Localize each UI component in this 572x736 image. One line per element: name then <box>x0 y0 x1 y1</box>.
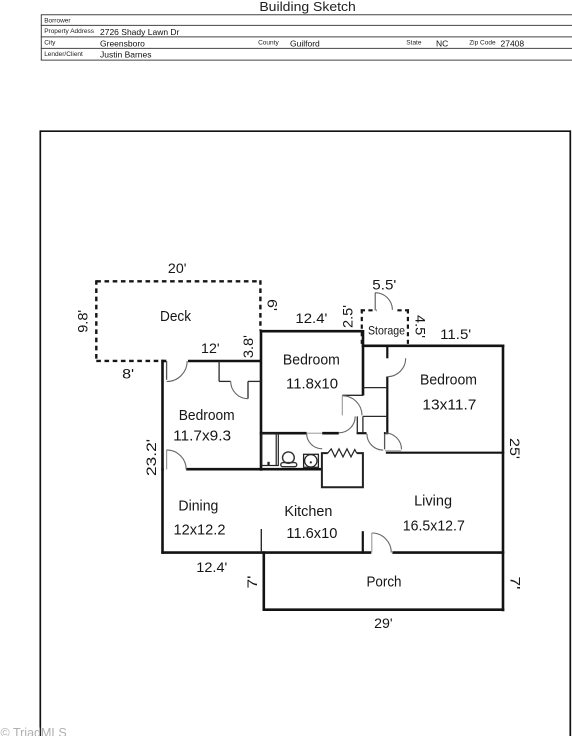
svg-text:Kitchen: Kitchen <box>284 503 332 520</box>
arc: dining door <box>167 450 187 470</box>
wall: bath/left-bedroom bottom <box>161 468 163 471</box>
arc: left bedroom closet door <box>231 381 248 398</box>
sketch frame top border <box>40 130 570 132</box>
deck dashed edge top <box>96 280 260 282</box>
bedroom13 door leaf <box>384 435 386 450</box>
wall: left house wall <box>161 360 164 554</box>
threshold bedroom13 door <box>385 450 401 452</box>
svg-text:County: County <box>258 40 279 47</box>
storage dashed edge left <box>361 309 363 345</box>
fixture: toilet <box>281 452 297 467</box>
svg-text:© TriadMLS: © TriadMLS <box>1 726 67 736</box>
wall: hall bottom piece <box>357 432 367 434</box>
arc: hall door to kitchen <box>367 434 383 450</box>
svg-text:11.6x10: 11.6x10 <box>286 525 337 542</box>
svg-text:4.5': 4.5' <box>413 315 429 338</box>
hall shelf y416 <box>363 415 387 417</box>
wall: storage bottom / right bedroom top <box>362 344 505 347</box>
svg-text:Property Address: Property Address <box>44 28 95 35</box>
wall: tick between hall doors <box>384 432 389 434</box>
threshold bath door <box>307 432 323 434</box>
svg-text:20': 20' <box>168 260 187 276</box>
fixture: shower stall <box>262 433 279 465</box>
dining-kitchen divider <box>260 529 262 553</box>
svg-text:Guilford: Guilford <box>290 38 320 48</box>
dining door leaf <box>166 450 168 469</box>
deck dashed edge bottom <box>96 360 162 362</box>
room + dimension labels <box>75 260 524 631</box>
svg-text:Bedroom: Bedroom <box>420 372 477 389</box>
door thresholds (light) <box>307 433 402 451</box>
storage dashed edge right <box>407 309 409 345</box>
svg-text:11.8x10: 11.8x10 <box>286 376 338 393</box>
svg-text:29': 29' <box>374 615 393 631</box>
sketch frame right border <box>569 130 571 736</box>
svg-text:7': 7' <box>508 577 524 590</box>
svg-text:12.4': 12.4' <box>295 310 327 326</box>
svg-text:Bedroom: Bedroom <box>179 407 235 424</box>
svg-text:11.5': 11.5' <box>440 326 471 342</box>
deck dashed edge right <box>259 280 261 330</box>
svg-text:13x11.7: 13x11.7 <box>422 397 476 414</box>
svg-text:Greensboro: Greensboro <box>100 38 145 48</box>
wall: right bedroom left wall <box>386 345 388 359</box>
storage dashed edge top-left of door <box>361 309 377 311</box>
wall stub outline right line <box>362 416 364 433</box>
svg-text:Justin Barnes: Justin Barnes <box>100 50 152 60</box>
svg-text:27408: 27408 <box>501 38 525 48</box>
svg-text:8': 8' <box>122 365 134 381</box>
svg-text:12': 12' <box>201 340 220 356</box>
svg-text:Lender/Client: Lender/Client <box>44 51 83 58</box>
wall: bottom wall of main floor with porch door gap <box>161 551 371 554</box>
svg-text:Storage: Storage <box>368 325 405 338</box>
closet left-bedroom: right stub (door leaf) <box>247 381 249 398</box>
header table grid <box>41 15 572 60</box>
svg-text:23.2': 23.2' <box>143 439 159 476</box>
wall: kitchen-living wall stub lower <box>362 531 364 554</box>
svg-text:Dining: Dining <box>178 498 218 515</box>
svg-text:12x12.2: 12x12.2 <box>174 521 226 538</box>
svg-text:3.8': 3.8' <box>240 335 256 358</box>
svg-text:Living: Living <box>414 492 452 509</box>
closet left-bedroom: bottom piece <box>219 380 231 382</box>
arc: deck door into left bedroom <box>167 361 188 382</box>
porch door leaf <box>371 533 373 553</box>
svg-text:Borrower: Borrower <box>44 18 71 25</box>
svg-text:7': 7' <box>244 576 260 589</box>
wall: bedroom 11.8x10 top <box>260 330 363 333</box>
svg-text:Porch: Porch <box>367 574 402 591</box>
arc: right bedroom entry door <box>385 433 402 450</box>
svg-text:2726 Shady Lawn Dr: 2726 Shady Lawn Dr <box>100 27 180 37</box>
closet left-bedroom: shelf right piece <box>248 380 261 382</box>
arc: hall closetA door <box>342 396 362 416</box>
arc: bedroom11.8 door <box>339 416 355 432</box>
wall: porch bottom <box>263 608 505 611</box>
wall: top-left below deck (12') with deck door gap <box>161 360 166 363</box>
wall: left-bedroom right wall + 3.8' jog <box>260 330 263 471</box>
storage dashed edge top-right of door <box>397 309 409 311</box>
svg-text:NC: NC <box>436 38 448 48</box>
wall: right bedroom bottom <box>386 452 504 454</box>
svg-text:6': 6' <box>264 299 280 311</box>
svg-text:25': 25' <box>507 438 523 459</box>
sketch frame left border <box>39 130 41 736</box>
svg-text:12.4': 12.4' <box>196 559 227 575</box>
storage door leaf <box>374 293 376 311</box>
wall: bedroom11.8 bottom / bath top <box>260 432 307 435</box>
closetA door leaf <box>341 396 343 416</box>
arc: storage door <box>375 293 392 310</box>
interior thin walls <box>219 361 387 553</box>
svg-text:11.7x9.3: 11.7x9.3 <box>173 427 231 444</box>
main solid walls <box>161 330 504 611</box>
fixture: sink/washer <box>304 454 319 467</box>
door swing arcs <box>167 293 406 553</box>
svg-text:Zip Code: Zip Code <box>469 40 496 47</box>
wall: porch left <box>262 551 265 611</box>
svg-text:Deck: Deck <box>160 308 191 325</box>
fixture: kitchen box with zigzag <box>322 449 363 487</box>
closet left-bedroom: left side <box>218 361 220 381</box>
arc: bath door <box>307 433 323 449</box>
arc: hall closetB door into right bedroom <box>387 358 405 376</box>
wall: central vertical x=363 <box>362 330 365 396</box>
svg-text:16.5x12.7: 16.5x12.7 <box>403 517 465 534</box>
wall: right house wall <box>502 345 505 612</box>
hall closetA bottom shelf <box>342 394 363 396</box>
svg-text:Bedroom: Bedroom <box>283 351 340 368</box>
wall stub outline left line <box>356 416 358 433</box>
svg-text:State: State <box>406 40 422 47</box>
svg-text:City: City <box>44 40 56 47</box>
hall closetB top <box>363 387 387 389</box>
deck dashed edge left <box>95 280 97 362</box>
arc: porch door <box>372 533 392 553</box>
svg-text:2.5': 2.5' <box>339 305 355 328</box>
svg-text:9.8': 9.8' <box>75 310 91 333</box>
deck door leaf <box>166 361 168 380</box>
svg-text:5.5': 5.5' <box>372 276 396 292</box>
svg-text:Building Sketch: Building Sketch <box>259 0 356 14</box>
